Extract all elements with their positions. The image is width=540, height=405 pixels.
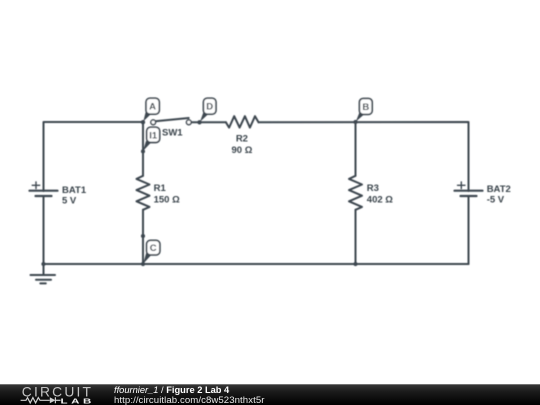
svg-text:ffournier_1 / Figure 2 Lab 4: ffournier_1 / Figure 2 Lab 4 [114, 385, 230, 395]
svg-text:402 Ω: 402 Ω [367, 195, 393, 206]
svg-text:http://circuitlab.com/c8w523nt: http://circuitlab.com/c8w523nthxt5r [114, 395, 265, 405]
svg-text:R2: R2 [236, 134, 248, 145]
svg-text:R1: R1 [154, 183, 167, 194]
svg-text:LAB: LAB [61, 397, 95, 405]
svg-text:-5 V: -5 V [487, 195, 505, 206]
svg-text:D: D [206, 102, 213, 113]
svg-text:5 V: 5 V [62, 196, 77, 207]
svg-text:90 Ω: 90 Ω [231, 145, 252, 156]
svg-text:150 Ω: 150 Ω [154, 195, 180, 206]
svg-text:B: B [362, 102, 369, 113]
svg-text:BAT2: BAT2 [487, 184, 511, 195]
svg-text:R3: R3 [367, 183, 379, 194]
svg-text:A: A [149, 102, 156, 113]
svg-text:I1: I1 [149, 131, 158, 142]
svg-text:BAT1: BAT1 [62, 185, 87, 196]
svg-text:SW1: SW1 [162, 128, 183, 139]
svg-text:C: C [150, 243, 157, 254]
